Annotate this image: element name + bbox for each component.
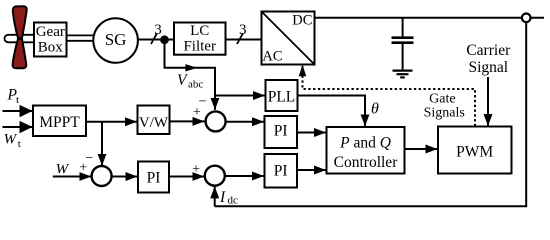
svg-text:SG: SG <box>105 30 127 49</box>
P and Q controller <box>327 127 405 174</box>
summing junction S3 <box>205 166 225 186</box>
MPPT <box>33 106 86 137</box>
svg-text:+: + <box>79 160 87 175</box>
ground <box>393 69 413 71</box>
shaft double line <box>67 34 95 36</box>
PWM <box>438 127 512 174</box>
wire PLL to theta <box>298 96 366 127</box>
svg-text:+: + <box>193 105 201 120</box>
wire LC to converter <box>226 39 262 41</box>
wire PI3 to S3 <box>169 176 204 178</box>
output terminal <box>522 13 531 22</box>
svg-text:Gate: Gate <box>429 92 455 107</box>
svg-text:W: W <box>56 162 70 178</box>
svg-text:LC: LC <box>190 23 209 39</box>
svg-text:PI: PI <box>147 170 161 187</box>
svg-text:Signal: Signal <box>468 59 508 76</box>
svg-text:θ: θ <box>371 101 379 118</box>
svg-text:PI: PI <box>274 123 288 140</box>
svg-text:+: + <box>192 162 200 177</box>
wire PI2 to controller <box>297 169 326 171</box>
mid arrow on Vabc wire <box>185 64 197 71</box>
PI box 1 <box>265 116 298 148</box>
svg-text:PWM: PWM <box>456 144 493 161</box>
svg-text:MPPT: MPPT <box>39 114 80 131</box>
svg-text:3: 3 <box>239 22 247 38</box>
svg-text:V/W: V/W <box>139 115 169 131</box>
wire Idc from bottom bus into S3 <box>214 186 216 206</box>
svg-text:DC: DC <box>292 13 312 29</box>
arrow Pt into MPPT <box>3 110 33 112</box>
svg-text:I: I <box>219 189 226 206</box>
svg-text:Gear: Gear <box>36 24 65 40</box>
summing junction S2 <box>92 166 112 186</box>
wire MPPT to V/W <box>86 121 137 123</box>
wire controller to PWM <box>405 148 438 150</box>
generator SG <box>93 18 138 63</box>
wire SG to LC filter <box>138 39 174 41</box>
svg-text:V: V <box>177 72 188 89</box>
wire Vabc to PLL <box>215 95 265 97</box>
svg-text:Carrier: Carrier <box>466 42 511 59</box>
wire S1 to PI1 <box>226 121 264 123</box>
svg-text:AC: AC <box>262 49 282 65</box>
svg-text:P and Q: P and Q <box>339 135 391 152</box>
svg-text:Signals: Signals <box>424 106 465 121</box>
wind turbine blade bottom <box>13 39 27 68</box>
wire Vabc from node <box>165 44 216 110</box>
svg-text:dc: dc <box>228 194 239 206</box>
svg-text:t: t <box>18 138 21 150</box>
LC filter <box>174 23 226 55</box>
arrow carrier into PWM <box>487 77 489 126</box>
node junction dot <box>160 35 169 44</box>
PI box 2 <box>265 154 298 188</box>
PI box 3 <box>138 162 169 193</box>
V/W box <box>138 106 170 135</box>
arrow Wt into MPPT <box>3 126 33 128</box>
wire MPPT branch down to S2 <box>101 122 103 166</box>
summing junction S1 <box>206 111 226 131</box>
capacitor C <box>402 18 404 37</box>
converter AC/DC U1 <box>262 12 315 65</box>
3-phase slash 2 <box>237 33 243 44</box>
right bus wire <box>215 22 527 206</box>
wire S2 to PI3 <box>112 176 138 178</box>
wire V/W to S1 <box>170 120 205 122</box>
svg-text:t: t <box>16 94 19 106</box>
PLL U2 <box>266 80 298 111</box>
svg-text:W: W <box>4 132 18 148</box>
svg-text:Filter: Filter <box>183 38 216 54</box>
DC bus wire <box>315 17 545 19</box>
svg-text:3: 3 <box>154 22 162 38</box>
wind turbine shaft/hub <box>5 35 38 43</box>
svg-text:Box: Box <box>38 40 64 56</box>
wire S3 to PI2 <box>225 175 264 177</box>
svg-text:PLL: PLL <box>268 89 296 106</box>
arrow gate signals into converter <box>299 65 307 77</box>
wind turbine blade top <box>13 6 27 38</box>
gearbox <box>34 23 67 57</box>
wire PI1 to controller <box>297 132 326 134</box>
svg-text:PI: PI <box>274 163 288 180</box>
svg-text:abc: abc <box>188 79 203 91</box>
3-phase slash 1 <box>151 33 157 44</box>
svg-text:Controller: Controller <box>334 154 399 171</box>
arrow W into S2 <box>53 176 92 178</box>
gate signals dashed wire <box>303 66 476 126</box>
